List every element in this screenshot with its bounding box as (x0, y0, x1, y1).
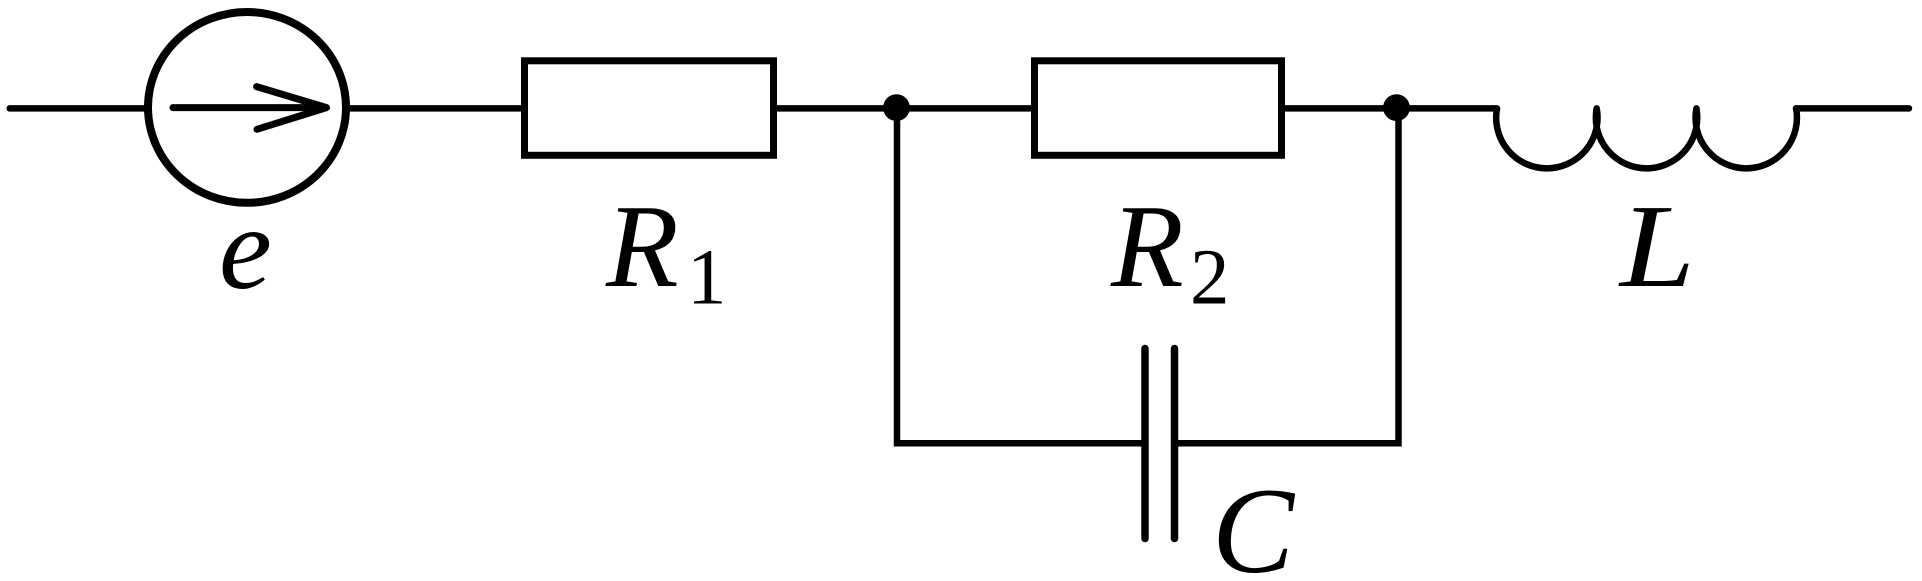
capacitor C right plate (1171, 349, 1179, 539)
resistor R1 (525, 61, 774, 156)
wire node A down and to capacitor left plate (897, 108, 1142, 443)
wire node B to inductor (1397, 105, 1497, 112)
svg-text:C: C (1212, 462, 1296, 581)
svg-text:1: 1 (687, 234, 727, 321)
wire R2 to node B (1283, 105, 1397, 112)
svg-text:2: 2 (1190, 234, 1230, 321)
capacitor C left plate (1141, 349, 1149, 539)
wire inductor to right edge (1796, 105, 1909, 112)
wire source to R1 (348, 105, 523, 112)
svg-text:R: R (1110, 180, 1184, 312)
svg-text:e: e (219, 182, 272, 314)
wire capacitor right plate to node B (1178, 108, 1399, 444)
wire R1 to node A (775, 105, 897, 112)
resistor R2 (1035, 61, 1282, 156)
svg-text:L: L (1618, 180, 1695, 312)
node A (883, 94, 910, 121)
voltage source e (circle) (148, 12, 346, 203)
node B (1383, 94, 1410, 121)
wire left lead (10, 105, 147, 112)
arrow inside source (173, 87, 327, 130)
svg-text:R: R (605, 180, 679, 312)
inductor L (three arcs) (1496, 108, 1797, 168)
wire node A to R2 (897, 105, 1033, 112)
